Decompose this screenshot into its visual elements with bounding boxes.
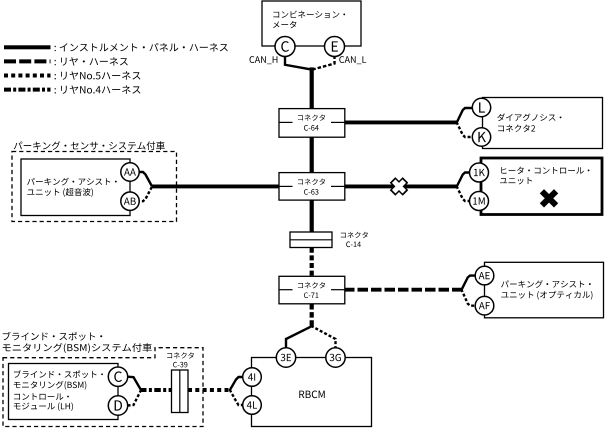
connector C-63 box bbox=[279, 173, 345, 201]
legend sample: rear harness (long dash) bbox=[4, 59, 51, 63]
wire branch from C-63 to heater control unit junction bbox=[344, 184, 457, 188]
connector C-14 (inline connector symbol) bbox=[290, 232, 332, 248]
RBCM box bbox=[252, 358, 372, 427]
connector C-14 label line2 bbox=[346, 242, 361, 248]
connector C-39 label line2 bbox=[173, 362, 187, 367]
wire pin link: split to RBCM pin 3G (dashed) bbox=[311, 326, 336, 348]
wire pin link: junction to RBCM pin 4I (solid) bbox=[230, 377, 243, 390]
wire from BSM junction to connector C-39 (rear No.4 harness, dash-dot) bbox=[140, 388, 172, 392]
parking assist unit (optical) box bbox=[485, 262, 604, 318]
wire pin link: junction to pin AF (dashed) bbox=[461, 289, 475, 306]
pin 4I of RBCM bbox=[248, 373, 255, 380]
wire pin link: junction to pin AE (solid) bbox=[461, 276, 475, 291]
pin circle AA (parking assist) bbox=[121, 163, 139, 181]
pin C of combination meter bbox=[281, 41, 289, 52]
pin C of BSM control module bbox=[114, 371, 122, 382]
connector C-71 box bbox=[279, 276, 345, 304]
net label CAN_L bbox=[339, 56, 366, 64]
pin AE of parking assist unit optical bbox=[479, 272, 490, 279]
legend sample: instrument panel harness (solid) bbox=[4, 45, 51, 49]
pin circle E (combination meter) bbox=[325, 37, 345, 57]
pin AF of parking assist unit optical bbox=[479, 302, 490, 309]
BSM system note line1 bbox=[3, 332, 103, 341]
parking assist unit (ultrasonic) label line2 bbox=[27, 188, 93, 197]
pin circle 1K (heater control unit) bbox=[470, 163, 489, 182]
pin E of combination meter bbox=[332, 41, 338, 51]
connector C-39 (inline connector symbol) bbox=[172, 370, 189, 413]
wire from C-39 to RBCM junction (rear No.5 harness, dotted) bbox=[188, 388, 230, 392]
connector C-64 box bbox=[279, 109, 345, 138]
pin L of diagnosis connector bbox=[479, 102, 485, 112]
pin 3G of RBCM bbox=[330, 354, 341, 361]
connector C-14 label line1 bbox=[341, 232, 368, 238]
BSM system note line2 bbox=[3, 343, 152, 353]
pin circle K (diagnosis connector) bbox=[472, 128, 490, 146]
legend label: rear No.4 harness bbox=[55, 85, 141, 93]
parking sensor system note bbox=[14, 141, 165, 150]
legend sample: rear No.5 harness (dotted) bbox=[4, 74, 51, 78]
connector C-63 label line2 bbox=[304, 189, 318, 195]
wire trunk segment: C-64 to C-63 bbox=[310, 136, 314, 174]
wire branch from C-64 to diagnosis connector junction bbox=[344, 120, 457, 124]
pin circle AE (optical parking assist) bbox=[475, 266, 494, 285]
wire pin link: junction to pin 1K (solid) bbox=[457, 173, 470, 188]
legend label: instrument panel harness bbox=[55, 43, 228, 52]
legend label: rear No.5 harness bbox=[55, 71, 141, 79]
wire pin link: BSM pin D to junction (dashed) bbox=[128, 391, 141, 406]
parking assist unit (optical) label line1 bbox=[501, 280, 591, 288]
connector C-71 label line2 bbox=[304, 292, 318, 298]
parking assist unit (ultrasonic) label line1 bbox=[27, 178, 117, 186]
BSM control module label line3 bbox=[14, 393, 69, 400]
heater control unit label line1 bbox=[501, 167, 589, 174]
combination meter label line2 bbox=[273, 21, 296, 28]
pin circle D (BSM module) bbox=[108, 396, 127, 415]
connector C-71 label line1 bbox=[298, 282, 325, 288]
connector C-39 label line1 bbox=[167, 352, 194, 358]
pin circle 4I (RBCM) bbox=[243, 368, 262, 387]
pin AB of parking assist unit bbox=[124, 198, 136, 205]
pin circle 3G (RBCM) bbox=[326, 348, 345, 367]
wire pin link: junction to pin AA (solid) bbox=[139, 172, 152, 186]
heater control unit label line2 bbox=[500, 177, 532, 184]
pin circle AF (optical parking assist) bbox=[475, 296, 494, 315]
wire pin link: split to RBCM pin 3E (solid) bbox=[286, 326, 313, 348]
pin circle 3E (RBCM) bbox=[276, 348, 295, 367]
BSM control module box bbox=[9, 364, 119, 420]
wire pin link: junction to pin K (dashed) bbox=[457, 122, 473, 137]
heater control unit box (thick border) bbox=[481, 158, 602, 215]
legend sample: rear No.4 harness (dash-dot) bbox=[4, 88, 51, 92]
diagnosis connector 2 box bbox=[483, 98, 603, 149]
wire pin link: junction to pin AB (dashed) bbox=[139, 187, 152, 201]
wire branch from C-71 to optical parking assist junction (rear harness, long dash) bbox=[344, 288, 462, 292]
pin circle 1M (heater control unit) bbox=[470, 192, 489, 211]
wire branch from parking assist junction to C-63 bbox=[152, 184, 281, 188]
connector C-64 label line2 bbox=[304, 125, 319, 131]
cut mark (X) on wire between C-63 and heater control unit bbox=[393, 180, 406, 193]
wire trunk segment: junction to connector C-64 (instrument panel harness) bbox=[310, 67, 314, 110]
pin 3E of RBCM bbox=[281, 354, 291, 361]
parking assist unit (ultrasonic) box bbox=[21, 159, 130, 216]
combination meter box bbox=[262, 1, 361, 46]
pin circle 4L (RBCM) bbox=[243, 396, 262, 415]
connector C-64 label line1 bbox=[298, 114, 325, 120]
wire pin link: junction to pin 1M (dashed) bbox=[457, 186, 470, 201]
wire pin link: BSM pin C to junction (solid) bbox=[128, 377, 141, 390]
diagnosis connector 2 label line1 bbox=[497, 113, 561, 121]
legend label: rear harness bbox=[55, 57, 128, 65]
cut mark (X) inside heater control unit bbox=[542, 191, 556, 205]
BSM system dashed enclosure (with notch around C-39 label) bbox=[3, 348, 203, 427]
pin circle L (diagnosis connector) bbox=[472, 98, 490, 116]
pin K of diagnosis connector bbox=[478, 132, 486, 142]
BSM control module label line4 bbox=[14, 402, 73, 411]
combination meter label line1 bbox=[273, 11, 345, 18]
wire CAN_H from meter pin C to trunk (solid) bbox=[285, 56, 311, 70]
pin AA of parking assist unit bbox=[124, 168, 136, 175]
pin D of BSM control module bbox=[115, 400, 122, 410]
BSM control module label line2 bbox=[14, 381, 87, 390]
diagnosis connector 2 label line2 bbox=[498, 125, 535, 132]
pin 1K of heater control unit bbox=[474, 169, 485, 176]
wire pin link: junction to pin L (solid) bbox=[457, 108, 473, 123]
wire trunk segment: C-63 to C-14 bbox=[310, 199, 314, 233]
pin 4L of RBCM bbox=[247, 401, 257, 408]
wire pin link: junction to RBCM pin 4L (dashed) bbox=[230, 390, 243, 405]
parking assist unit (optical) label line2 bbox=[501, 291, 592, 300]
wire trunk segment: C-14 to C-71 (rear No.5 harness, dotted) bbox=[310, 248, 314, 277]
RBCM label bbox=[299, 391, 324, 399]
pin 1M of heater control unit bbox=[473, 197, 485, 204]
connector C-63 label line1 bbox=[298, 179, 325, 185]
net label CAN_H bbox=[250, 56, 278, 64]
pin circle C (combination meter) bbox=[275, 37, 295, 57]
wire trunk segment: C-71 to RBCM split (dotted) bbox=[310, 304, 314, 327]
pin circle C (BSM module) bbox=[108, 367, 127, 386]
BSM control module label line1 bbox=[14, 370, 103, 378]
pin circle AB (parking assist) bbox=[121, 192, 139, 210]
wire CAN_L from meter pin E to trunk (dashed) bbox=[313, 56, 335, 70]
parking sensor system dashed enclosure bbox=[12, 152, 177, 222]
